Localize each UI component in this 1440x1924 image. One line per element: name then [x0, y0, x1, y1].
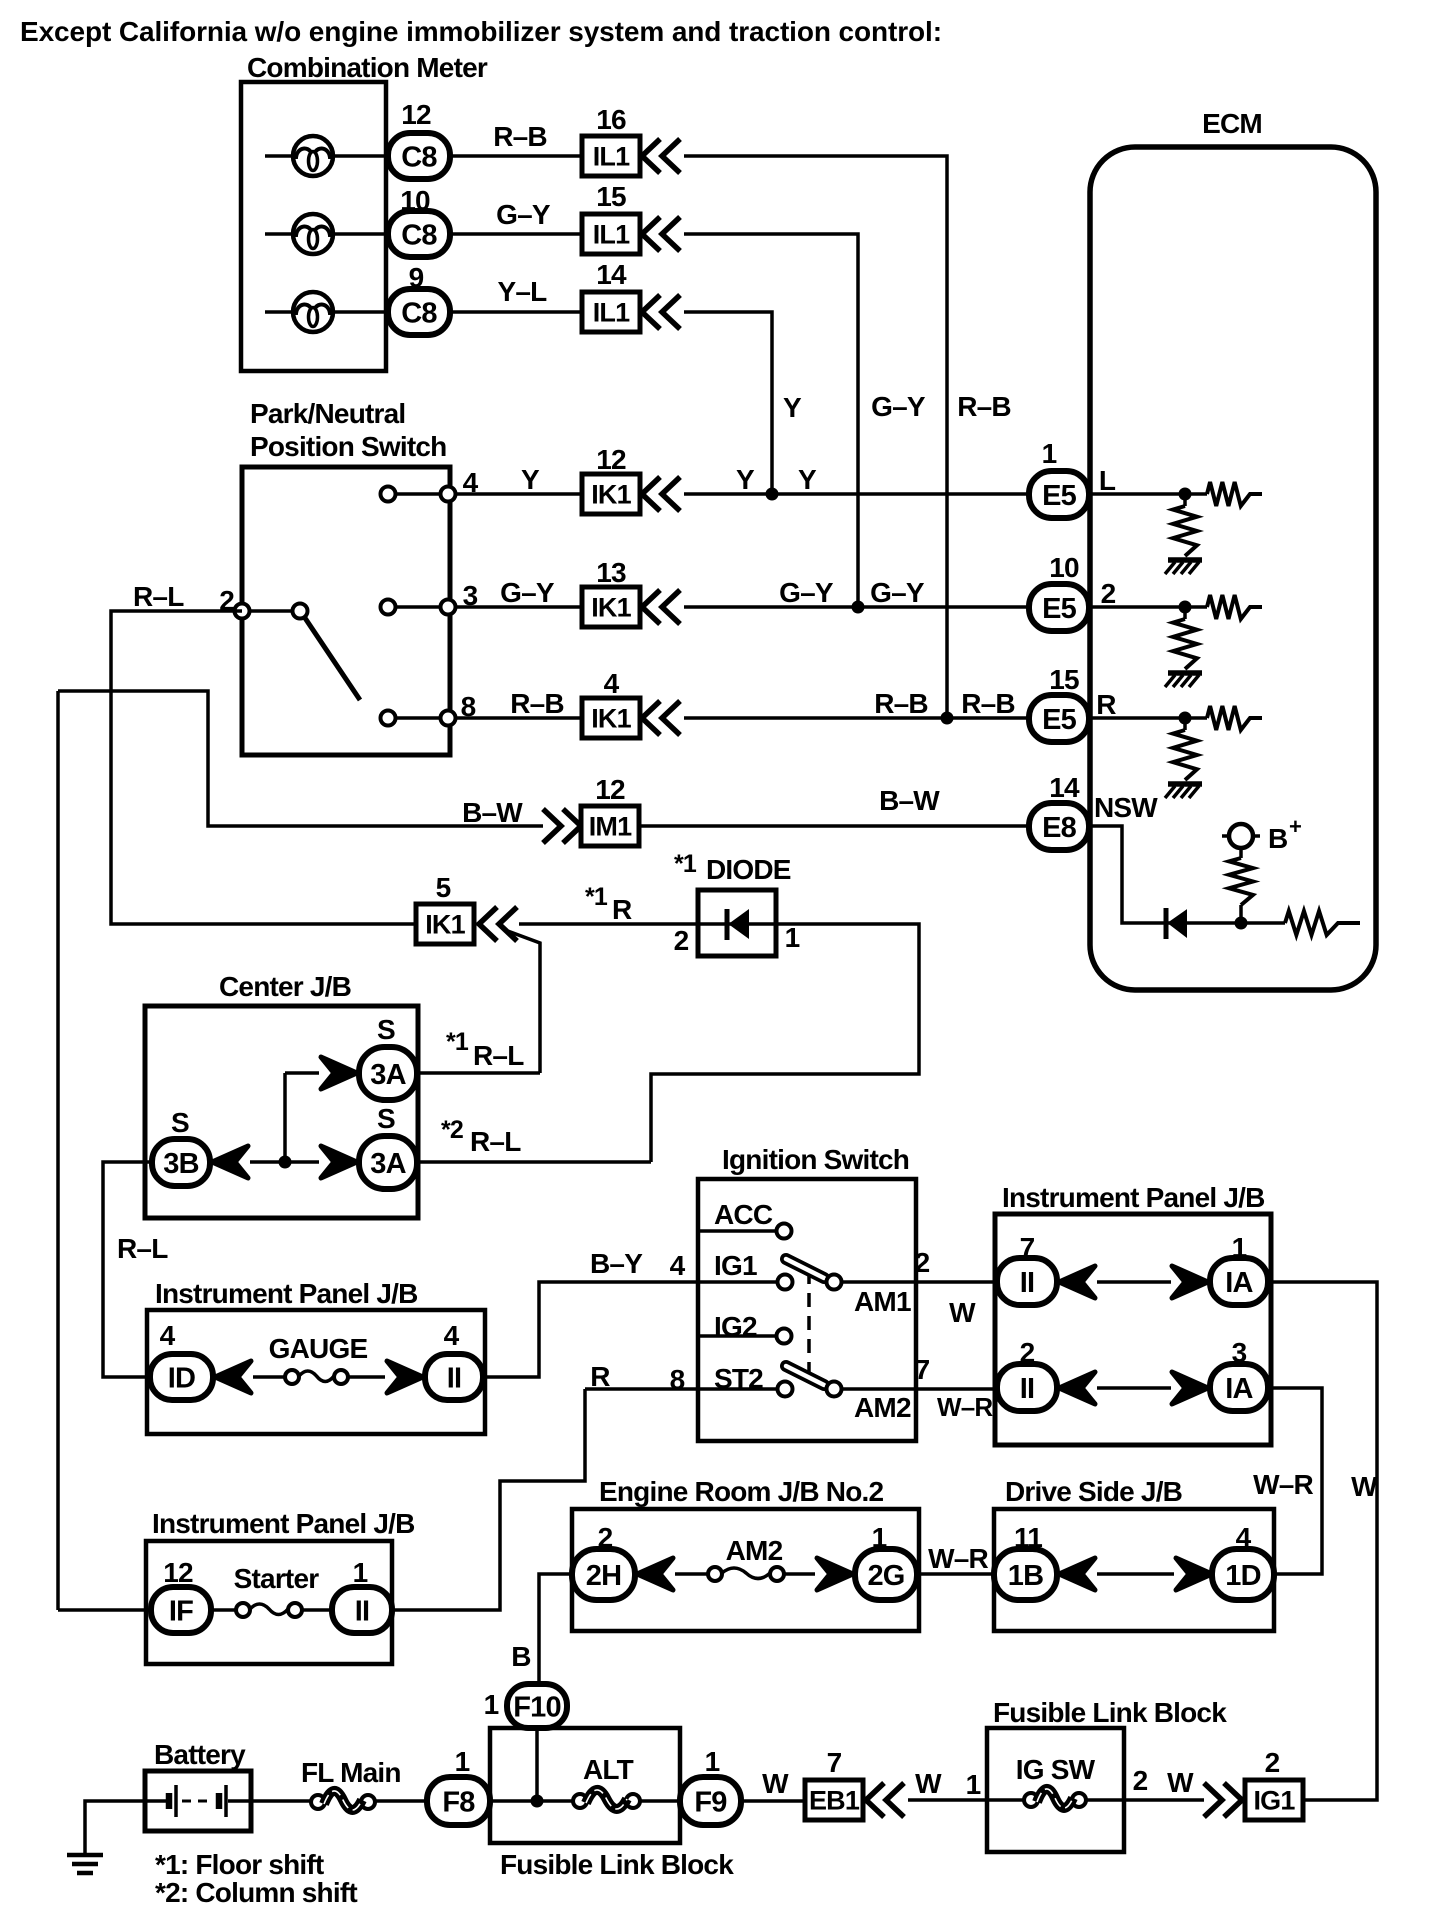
svg-text:14: 14 [1049, 772, 1080, 803]
svg-text:W: W [1351, 1471, 1378, 1502]
svg-text:IL1: IL1 [593, 220, 630, 250]
svg-text:2: 2 [1133, 1765, 1148, 1796]
wire IF to left vertical [58, 691, 151, 1610]
node R [1089, 689, 1192, 725]
wire battery to ground [85, 1801, 145, 1853]
wire *2R-L 3A lower [417, 1116, 651, 1162]
connector II pin 7 [997, 1232, 1095, 1305]
svg-text:R–L: R–L [117, 1233, 168, 1264]
svg-text:E5: E5 [1042, 480, 1077, 512]
wire W IA-1 to IG1 [1268, 1282, 1378, 1800]
switch pin 2 terminal [219, 585, 249, 619]
connector 2G pin 1 [817, 1522, 917, 1600]
connector IM1 pin 12 [543, 774, 639, 846]
svg-text:12: 12 [163, 1557, 193, 1588]
lamp L2 [265, 214, 388, 254]
resistor R pull-up [1185, 706, 1262, 730]
svg-text:IF: IF [169, 1595, 193, 1627]
svg-text:B: B [511, 1641, 530, 1672]
svg-text:EB1: EB1 [809, 1786, 860, 1816]
svg-text:R–B: R–B [510, 688, 564, 719]
wire internal 3B to 3A upper [279, 1073, 320, 1169]
ignition ST2 terminal [698, 1363, 793, 1397]
wire W IG SW to IG1 [1124, 1765, 1204, 1800]
wire W-R IA-3 to 1D [1253, 1388, 1322, 1574]
svg-text:*2: Column shift: *2: Column shift [155, 1877, 357, 1908]
note floor shift [155, 1849, 324, 1880]
svg-text:Instrument Panel J/B: Instrument Panel J/B [152, 1508, 415, 1539]
ground battery [67, 1855, 103, 1873]
connector 2H pin 2 [572, 1522, 673, 1600]
svg-text:Y: Y [783, 392, 802, 423]
connector EB1 pin 7 [805, 1747, 904, 1820]
svg-text:1: 1 [455, 1746, 470, 1777]
connector C8 pin 9 [388, 262, 450, 335]
svg-text:*1: Floor shift: *1: Floor shift [155, 1849, 324, 1880]
wire R ST2 from starter [585, 1361, 698, 1395]
svg-text:Drive Side J/B: Drive Side J/B [1005, 1476, 1182, 1507]
svg-text:R–L: R–L [473, 1040, 524, 1071]
wire R II-starter to ST2 [392, 1389, 585, 1610]
resistor L to ground [1165, 494, 1202, 574]
diode D1 (floor shift) [674, 850, 800, 956]
svg-text:IG SW: IG SW [1016, 1754, 1096, 1785]
svg-text:Battery: Battery [154, 1739, 246, 1770]
connector 3A upper [321, 1014, 417, 1100]
connector II pin 2 [997, 1337, 1095, 1411]
connector F8 pin 1 [427, 1746, 490, 1825]
node NSW [1089, 792, 1241, 923]
svg-text:II: II [447, 1362, 462, 1394]
svg-text:G–Y: G–Y [500, 577, 555, 608]
connector IL1 pin 16 [582, 104, 680, 176]
wire G-Y pin3 to IK1 [456, 577, 582, 608]
wire B-W left segment [58, 691, 543, 828]
svg-text:1D: 1D [1225, 1560, 1260, 1592]
svg-text:Y–L: Y–L [498, 276, 548, 307]
label AM2 [854, 1392, 911, 1423]
connector IL1 pin 14 [582, 259, 680, 332]
svg-text:W: W [949, 1297, 976, 1328]
svg-text:E8: E8 [1042, 812, 1077, 844]
wire *1R IK1-5 to diode [519, 883, 698, 925]
wire diode pin1 to *2R-L [651, 924, 919, 1162]
svg-text:F9: F9 [694, 1786, 727, 1818]
combination meter box [241, 82, 386, 371]
svg-text:B: B [1268, 823, 1287, 854]
drive side J/B box [994, 1509, 1274, 1631]
battery cells [145, 1785, 311, 1817]
svg-text:B–W: B–W [879, 785, 940, 816]
label G-Y vertical [871, 391, 926, 422]
wire R-L pin2 to IK1-5 [111, 581, 416, 924]
switch contact pin 3 [381, 580, 478, 615]
ignition IG2 terminal [698, 1311, 792, 1344]
battery label [154, 1739, 246, 1770]
svg-text:+: + [1289, 814, 1301, 839]
svg-text:C8: C8 [401, 141, 437, 173]
svg-text:2: 2 [1265, 1747, 1280, 1778]
wire R-B IL1-16 drop [684, 156, 947, 718]
svg-text:G–Y: G–Y [779, 577, 834, 608]
node 2 [1089, 578, 1192, 614]
svg-text:Position Switch: Position Switch [250, 431, 446, 462]
battery box [145, 1771, 251, 1831]
wire Y IL1-14 drop [684, 312, 772, 494]
svg-text:R: R [590, 1361, 610, 1392]
connector IL1 pin 15 [582, 181, 680, 254]
ECM box [1090, 147, 1376, 990]
svg-text:IA: IA [1225, 1373, 1253, 1405]
combination meter label [247, 52, 488, 83]
svg-text:1: 1 [705, 1746, 720, 1777]
instrument panel J/B right box [995, 1214, 1271, 1445]
svg-text:II: II [1020, 1267, 1035, 1299]
svg-text:F10: F10 [513, 1691, 561, 1723]
connector ID pin 4 [150, 1320, 251, 1400]
wire *1R-L 3A to IK1-5 [417, 1028, 540, 1073]
ignition ACC terminal [698, 1199, 792, 1239]
lamp L3 [265, 292, 388, 332]
junction NSW/B+ [1235, 917, 1248, 930]
svg-text:Starter: Starter [234, 1563, 320, 1594]
svg-text:1B: 1B [1008, 1560, 1043, 1592]
fusible link block left label [500, 1849, 734, 1880]
svg-text:Y: Y [521, 464, 540, 495]
ignition IG1 lever [786, 1259, 842, 1290]
svg-text:Y: Y [736, 464, 755, 495]
instrument panel J/B gauge label [155, 1278, 418, 1309]
B+ symbol [1222, 814, 1301, 854]
svg-text:Y: Y [798, 464, 817, 495]
wire 1B to 1D [1097, 1572, 1174, 1576]
svg-text:E5: E5 [1042, 593, 1077, 625]
connector F9 pin 1 [680, 1746, 741, 1825]
fusible link block left box [490, 1728, 680, 1843]
connector F10 pin 1 [484, 1684, 567, 1800]
wire G-Y C8 to IL1 [450, 199, 582, 234]
svg-text:GAUGE: GAUGE [269, 1333, 368, 1364]
wire B 2H to F10 [511, 1574, 572, 1684]
svg-text:2: 2 [674, 925, 689, 956]
svg-text:IK1: IK1 [591, 593, 631, 623]
resistor NSW right [1247, 911, 1360, 935]
svg-text:Instrument Panel J/B: Instrument Panel J/B [155, 1278, 418, 1309]
svg-text:R–B: R–B [874, 688, 928, 719]
connector IK1 pin 12 [582, 444, 680, 514]
center J/B box [145, 1006, 418, 1218]
fusible link IG SW [987, 1754, 1124, 1808]
ignition switch box [698, 1179, 916, 1441]
svg-text:IM1: IM1 [589, 812, 632, 842]
svg-text:S: S [377, 1103, 395, 1134]
svg-text:2G: 2G [867, 1560, 904, 1592]
svg-text:4: 4 [160, 1320, 176, 1351]
switch contact pin 8 [381, 691, 476, 726]
lamp L1 [265, 136, 388, 176]
svg-text:Fusible Link Block: Fusible Link Block [993, 1697, 1227, 1728]
wire II-7 to IA-1 [1097, 1280, 1171, 1284]
connector C8 pin 12 [388, 99, 450, 179]
wire B-Y II to ignition IG1 [483, 1248, 698, 1377]
svg-text:Park/Neutral: Park/Neutral [250, 398, 405, 429]
connector 3B [152, 1107, 248, 1186]
svg-text:2: 2 [1101, 578, 1116, 609]
wire R-L 3B to ID [103, 1162, 168, 1377]
svg-text:IG1: IG1 [1253, 1786, 1295, 1816]
svg-text:R–L: R–L [133, 581, 184, 612]
connector IA pin 1 [1172, 1232, 1268, 1305]
svg-text:IA: IA [1225, 1267, 1253, 1299]
svg-text:F8: F8 [442, 1786, 475, 1818]
svg-text:G–Y: G–Y [870, 577, 925, 608]
svg-text:Center J/B: Center J/B [219, 971, 351, 1002]
connector IG1 pin 2 [1204, 1747, 1303, 1820]
svg-text:E5: E5 [1042, 704, 1077, 736]
svg-text:II: II [1020, 1373, 1035, 1405]
svg-text:W: W [1167, 1767, 1194, 1798]
svg-text:W–R: W–R [937, 1392, 993, 1422]
svg-text:1: 1 [785, 922, 800, 953]
svg-text:R–B: R–B [493, 121, 547, 152]
title text [20, 16, 942, 47]
svg-text:C8: C8 [401, 297, 437, 329]
connector 1D pin 4 [1176, 1522, 1274, 1600]
svg-text:R: R [612, 894, 632, 925]
svg-text:2: 2 [915, 1247, 930, 1278]
svg-text:IK1: IK1 [425, 910, 465, 940]
svg-text:Engine Room J/B No.2: Engine Room J/B No.2 [599, 1476, 883, 1507]
svg-text:W: W [915, 1768, 942, 1799]
fusible link ALT [573, 1754, 680, 1809]
park/neutral position switch box [242, 467, 450, 755]
svg-text:2H: 2H [586, 1560, 621, 1592]
svg-text:Combination Meter: Combination Meter [247, 52, 488, 83]
switch wiper lever [305, 618, 360, 700]
center J/B label [219, 971, 351, 1002]
wire B-W IM1 to E8 [640, 785, 1029, 826]
ignition ST2 lever [786, 1366, 842, 1397]
fuse AM2 [675, 1535, 815, 1581]
wire W EB1 to IG SW [908, 1768, 987, 1800]
svg-text:DIODE: DIODE [706, 854, 791, 885]
connector II pin 4 gauge [387, 1320, 483, 1400]
wire II-2 to IA-3 [1097, 1386, 1171, 1390]
label Y vertical [783, 392, 802, 423]
svg-text:B–Y: B–Y [590, 1248, 643, 1279]
resistor 2 pull-up [1185, 595, 1262, 619]
diode internal ECM [1166, 908, 1186, 939]
svg-text:R–B: R–B [957, 391, 1011, 422]
svg-text:ECM: ECM [1202, 108, 1262, 139]
connector IA pin 3 [1172, 1337, 1268, 1411]
note column shift [155, 1877, 357, 1908]
svg-text:*2: *2 [441, 1116, 463, 1144]
svg-text:IK1: IK1 [591, 480, 631, 510]
junction F10/ALT [490, 1795, 573, 1808]
svg-text:*1: *1 [585, 883, 608, 911]
fuse GAUGE [253, 1333, 385, 1384]
svg-text:10: 10 [1049, 552, 1079, 583]
svg-text:IL1: IL1 [593, 298, 630, 328]
svg-text:*1: *1 [446, 1028, 469, 1056]
wire internal 3B to 3A lower [250, 1160, 319, 1164]
wire W-R 2G to 1B [917, 1543, 994, 1574]
svg-text:1: 1 [1042, 438, 1057, 469]
wire W AM2 to II-2 [840, 1354, 997, 1422]
fuse Starter [211, 1563, 332, 1617]
ignition lever dashed link [807, 1270, 811, 1384]
svg-text:S: S [377, 1014, 395, 1045]
instrument panel J/B starter box [146, 1541, 392, 1664]
svg-text:7: 7 [915, 1354, 930, 1385]
svg-text:L: L [1099, 465, 1116, 496]
svg-text:NSW: NSW [1094, 792, 1158, 823]
instrument panel J/B right label [1002, 1182, 1265, 1213]
ECM label [1202, 108, 1262, 139]
svg-text:3B: 3B [163, 1148, 198, 1180]
switch contact pin 4 [381, 467, 479, 502]
connector 3A lower [321, 1103, 417, 1189]
wire G-Y IL1-15 drop [684, 234, 858, 607]
svg-text:12: 12 [595, 774, 625, 805]
svg-text:15: 15 [596, 181, 626, 212]
svg-text:1: 1 [353, 1557, 368, 1588]
connector IK1 pin 13 [582, 557, 680, 627]
wire Y-L C8 to IL1 [450, 276, 582, 312]
svg-text:4: 4 [444, 1320, 460, 1351]
instrument panel J/B gauge box [147, 1310, 485, 1434]
svg-text:5: 5 [436, 872, 451, 903]
svg-text:ID: ID [168, 1362, 195, 1394]
wire R-B IK1-4 to E5-15 [684, 688, 1029, 725]
instrument panel J/B starter label [152, 1508, 415, 1539]
svg-text:AM1: AM1 [854, 1286, 911, 1317]
node L [1089, 465, 1192, 501]
svg-text:AM2: AM2 [854, 1392, 911, 1423]
svg-text:IK1: IK1 [591, 704, 631, 734]
wire W F9 to EB1 [741, 1768, 805, 1801]
resistor 2 to ground [1165, 607, 1202, 687]
fusible link FL Main [301, 1757, 427, 1810]
svg-text:B–W: B–W [462, 797, 523, 828]
fusible link block right box [987, 1728, 1124, 1852]
svg-text:ACC: ACC [714, 1199, 773, 1230]
label R-B vertical [957, 391, 1011, 422]
connector 1B pin 11 [994, 1522, 1095, 1600]
connector IK1 pin 5 [416, 872, 517, 944]
svg-text:7: 7 [827, 1747, 842, 1778]
svg-text:Fusible Link Block: Fusible Link Block [500, 1849, 734, 1880]
svg-text:W–R: W–R [928, 1543, 988, 1574]
svg-text:*1: *1 [674, 850, 697, 878]
svg-text:12: 12 [596, 444, 626, 475]
fusible link block right label [993, 1697, 1227, 1728]
drive side J/B label [1005, 1476, 1182, 1507]
svg-text:15: 15 [1049, 664, 1079, 695]
svg-text:Ignition Switch: Ignition Switch [722, 1144, 909, 1175]
svg-text:G–Y: G–Y [871, 391, 926, 422]
connector C8 pin 10 [388, 185, 450, 257]
svg-text:Except California w/o engine i: Except California w/o engine immobilizer… [20, 16, 942, 47]
connector E5 pin 15 [1029, 664, 1089, 742]
svg-text:4: 4 [670, 1250, 686, 1281]
svg-text:Instrument Panel J/B: Instrument Panel J/B [1002, 1182, 1265, 1213]
engine room J/B No.2 label [599, 1476, 883, 1507]
wire W AM1 to II-7 [840, 1247, 997, 1328]
connector E8 pin 14 [1029, 772, 1089, 850]
svg-text:R: R [1096, 689, 1116, 720]
label AM1 [854, 1286, 911, 1317]
svg-text:12: 12 [401, 99, 431, 130]
svg-text:13: 13 [596, 557, 626, 588]
svg-text:II: II [355, 1595, 370, 1627]
svg-text:IL1: IL1 [593, 142, 630, 172]
svg-text:W–R: W–R [1253, 1469, 1313, 1500]
svg-text:C8: C8 [401, 219, 437, 251]
svg-text:G–Y: G–Y [496, 199, 551, 230]
resistor L pull-up [1185, 482, 1262, 506]
svg-text:4: 4 [604, 668, 620, 699]
svg-text:W: W [762, 1768, 789, 1799]
wire R-B C8 to IL1 [450, 121, 582, 156]
park/neutral position switch label [250, 398, 446, 462]
svg-text:14: 14 [596, 259, 627, 290]
wire Y IK1-12 to E5-1 [684, 464, 1029, 501]
svg-text:3A: 3A [370, 1148, 406, 1180]
svg-text:R–B: R–B [961, 688, 1015, 719]
svg-text:8: 8 [670, 1364, 685, 1395]
svg-text:IG1: IG1 [714, 1250, 757, 1281]
resistor to B+ [1229, 848, 1253, 923]
connector II pin 1 starter [332, 1557, 392, 1633]
resistor R to ground [1165, 718, 1202, 798]
wire R-B pin8 to IK1 [456, 688, 582, 719]
svg-text:S: S [171, 1107, 189, 1138]
svg-text:ALT: ALT [583, 1754, 634, 1785]
svg-text:3A: 3A [370, 1059, 406, 1091]
wire *1 R-L riser to IK1-5 [505, 930, 540, 1073]
wire Y pin4 to IK1 [456, 464, 582, 495]
connector E5 pin 10 [1029, 552, 1089, 631]
svg-text:FL Main: FL Main [301, 1757, 401, 1788]
connector E5 pin 1 [1029, 438, 1089, 518]
wire G-Y IK1-13 to E5-10 [684, 577, 1029, 614]
svg-text:1: 1 [484, 1689, 499, 1720]
svg-text:AM2: AM2 [726, 1535, 783, 1566]
connector IK1 pin 4 [582, 668, 680, 738]
connector IF pin 12 [151, 1557, 211, 1633]
svg-text:16: 16 [596, 104, 626, 135]
ignition IG1 terminal [698, 1250, 793, 1290]
svg-text:1: 1 [966, 1769, 981, 1800]
svg-text:R–L: R–L [470, 1126, 521, 1157]
engine room J/B No.2 box [572, 1509, 919, 1631]
switch common contact [250, 604, 308, 619]
ignition switch label [722, 1144, 909, 1175]
